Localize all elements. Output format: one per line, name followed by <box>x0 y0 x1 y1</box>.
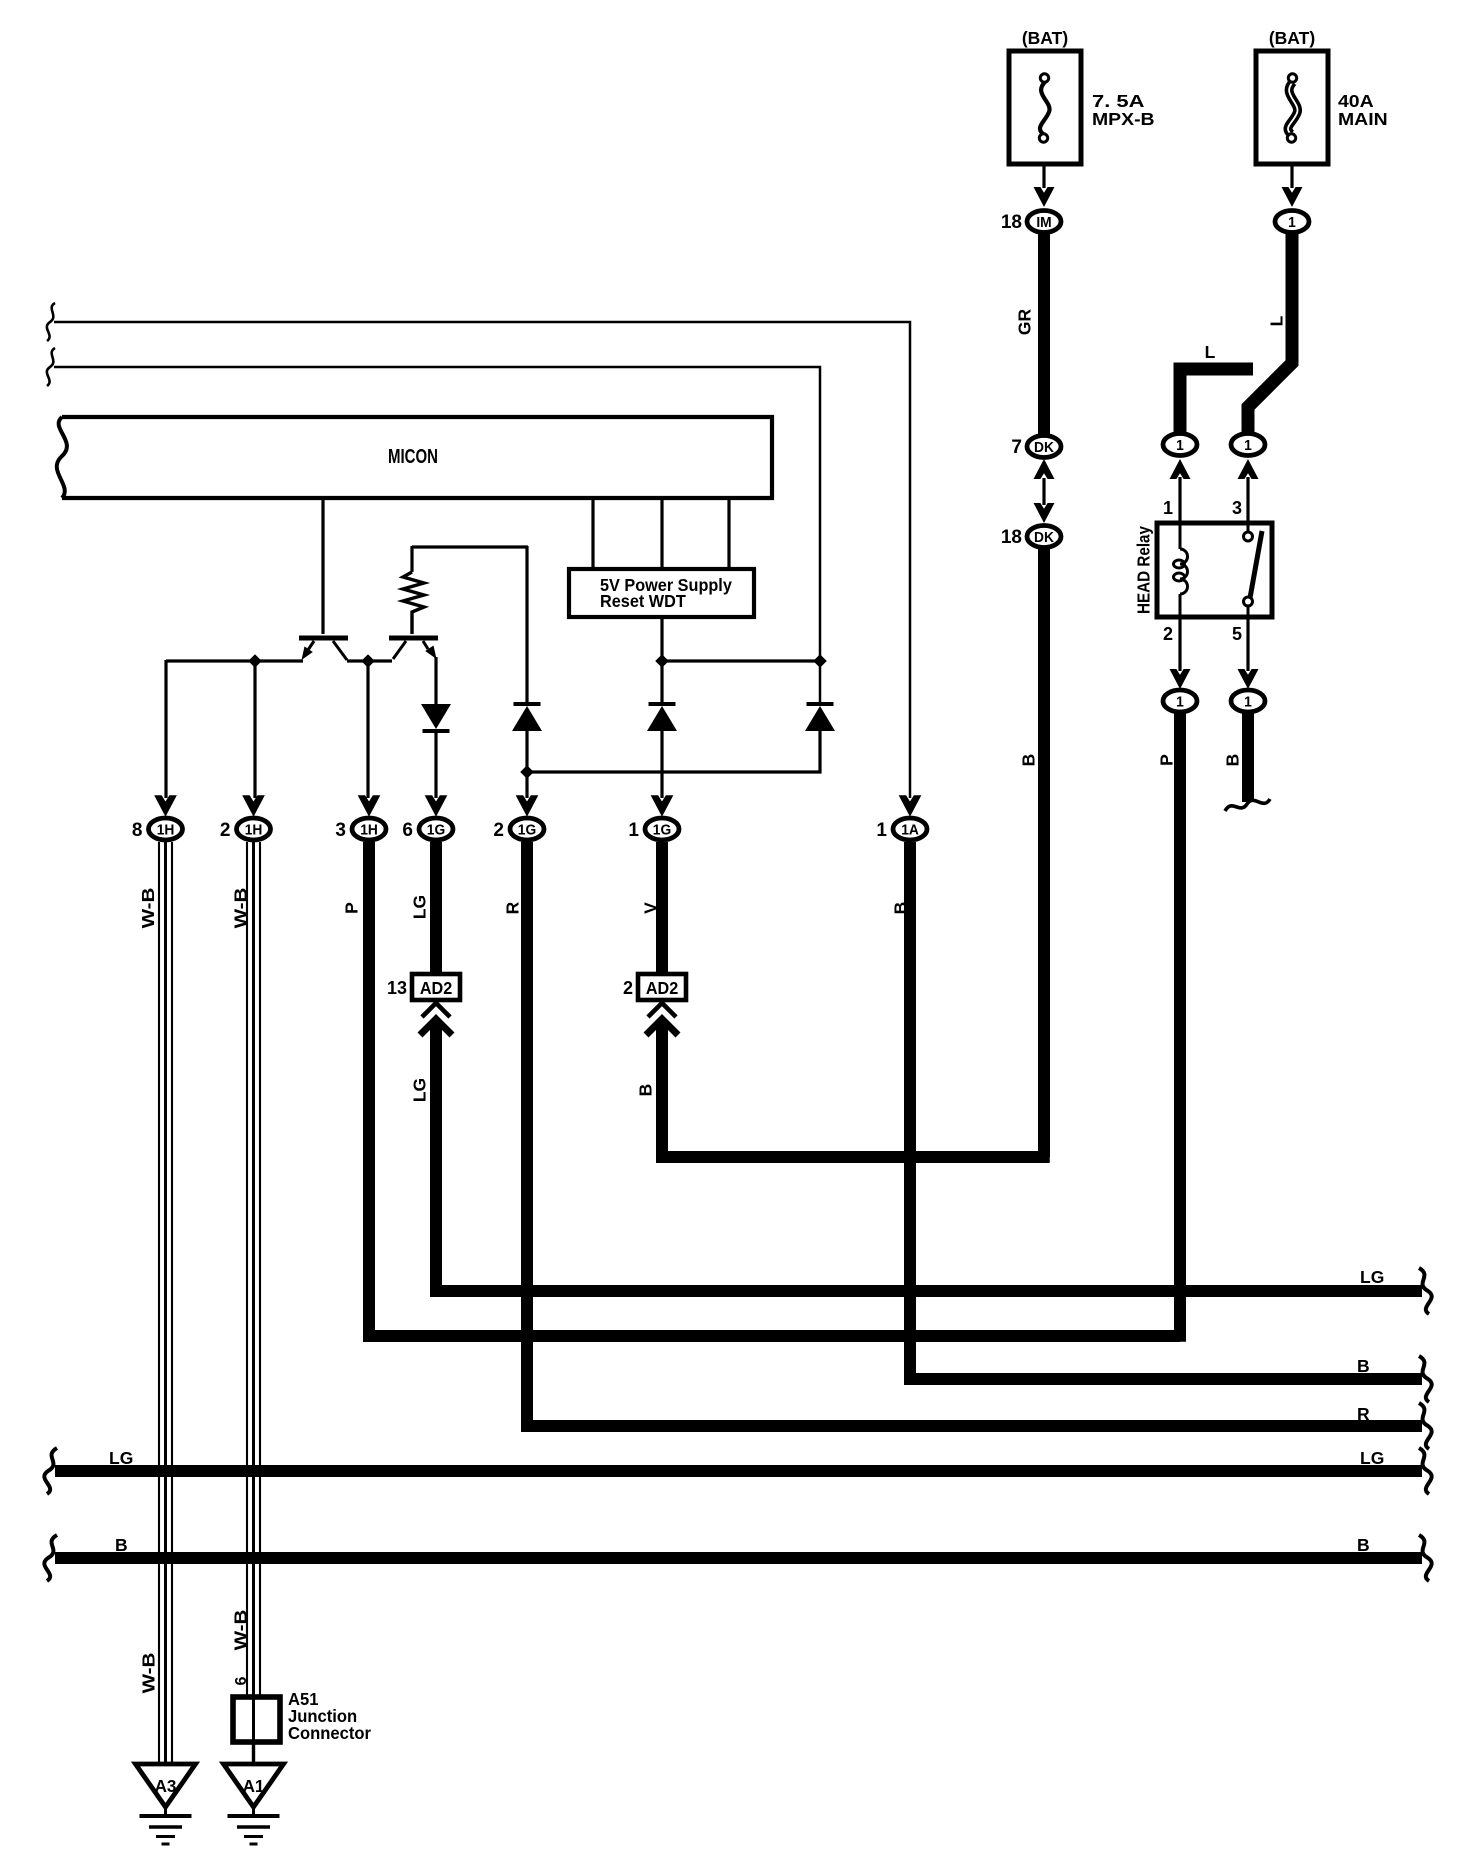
svg-text:B: B <box>1357 1535 1370 1555</box>
svg-text:Connector: Connector <box>288 1724 371 1743</box>
svg-text:P: P <box>341 902 361 914</box>
svg-text:W-B: W-B <box>139 888 158 929</box>
svg-text:B: B <box>1357 1356 1370 1376</box>
svg-text:IM: IM <box>1036 214 1051 231</box>
svg-text:5: 5 <box>1232 624 1242 644</box>
svg-text:1: 1 <box>1288 214 1296 231</box>
svg-text:1: 1 <box>876 820 887 841</box>
svg-text:LG: LG <box>1360 1448 1384 1468</box>
svg-text:3: 3 <box>335 820 346 841</box>
svg-text:8: 8 <box>132 820 143 841</box>
svg-text:1: 1 <box>1176 694 1184 711</box>
svg-text:2: 2 <box>623 978 633 998</box>
svg-text:Reset WDT: Reset WDT <box>600 591 686 611</box>
svg-text:(BAT): (BAT) <box>1022 28 1068 48</box>
svg-text:GR: GR <box>1014 309 1034 336</box>
svg-text:L: L <box>1205 342 1216 362</box>
svg-text:R: R <box>1357 1404 1370 1424</box>
svg-text:18: 18 <box>1001 212 1022 233</box>
svg-text:LG: LG <box>409 895 429 919</box>
svg-text:1: 1 <box>1176 437 1184 454</box>
svg-text:1H: 1H <box>360 822 378 839</box>
svg-text:B: B <box>890 902 910 915</box>
svg-text:P: P <box>1156 754 1176 766</box>
svg-text:1H: 1H <box>157 822 175 839</box>
svg-text:6: 6 <box>402 820 413 841</box>
svg-text:B: B <box>1222 754 1242 767</box>
svg-text:LG: LG <box>109 1448 133 1468</box>
svg-text:W-B: W-B <box>232 1610 251 1651</box>
svg-text:2: 2 <box>1163 624 1173 644</box>
svg-text:MICON: MICON <box>388 445 438 468</box>
svg-text:1G: 1G <box>518 822 536 839</box>
svg-text:1: 1 <box>1244 437 1252 454</box>
svg-text:LG: LG <box>409 1078 429 1102</box>
svg-text:B: B <box>635 1084 655 1097</box>
svg-text:1G: 1G <box>427 822 445 839</box>
svg-text:13: 13 <box>387 978 407 998</box>
svg-text:B: B <box>115 1535 128 1555</box>
svg-text:DK: DK <box>1034 529 1054 546</box>
svg-text:3: 3 <box>1232 498 1242 518</box>
svg-text:B: B <box>1018 754 1038 767</box>
svg-text:A1: A1 <box>243 1776 265 1797</box>
svg-text:MAIN: MAIN <box>1338 109 1388 129</box>
svg-text:1A: 1A <box>901 822 919 839</box>
svg-text:AD2: AD2 <box>646 978 678 998</box>
svg-text:2: 2 <box>220 820 231 841</box>
svg-text:(BAT): (BAT) <box>1269 28 1315 48</box>
svg-text:1H: 1H <box>245 822 263 839</box>
svg-text:DK: DK <box>1034 439 1054 456</box>
svg-text:L: L <box>1266 315 1286 326</box>
svg-text:W-B: W-B <box>140 1653 159 1694</box>
svg-text:6: 6 <box>233 1676 250 1685</box>
svg-text:1: 1 <box>1163 498 1173 518</box>
svg-text:AD2: AD2 <box>420 978 452 998</box>
svg-text:LG: LG <box>1360 1267 1384 1287</box>
svg-text:7: 7 <box>1011 437 1022 458</box>
svg-text:HEAD Relay: HEAD Relay <box>1134 525 1153 614</box>
svg-text:W-B: W-B <box>232 888 251 929</box>
svg-text:1: 1 <box>628 820 639 841</box>
svg-text:A3: A3 <box>155 1776 177 1797</box>
svg-text:V: V <box>640 902 660 914</box>
svg-text:1G: 1G <box>653 822 671 839</box>
svg-text:R: R <box>502 901 522 914</box>
svg-text:MPX-B: MPX-B <box>1092 109 1155 129</box>
svg-text:1: 1 <box>1244 694 1252 711</box>
svg-text:18: 18 <box>1001 527 1022 548</box>
svg-text:2: 2 <box>493 820 504 841</box>
